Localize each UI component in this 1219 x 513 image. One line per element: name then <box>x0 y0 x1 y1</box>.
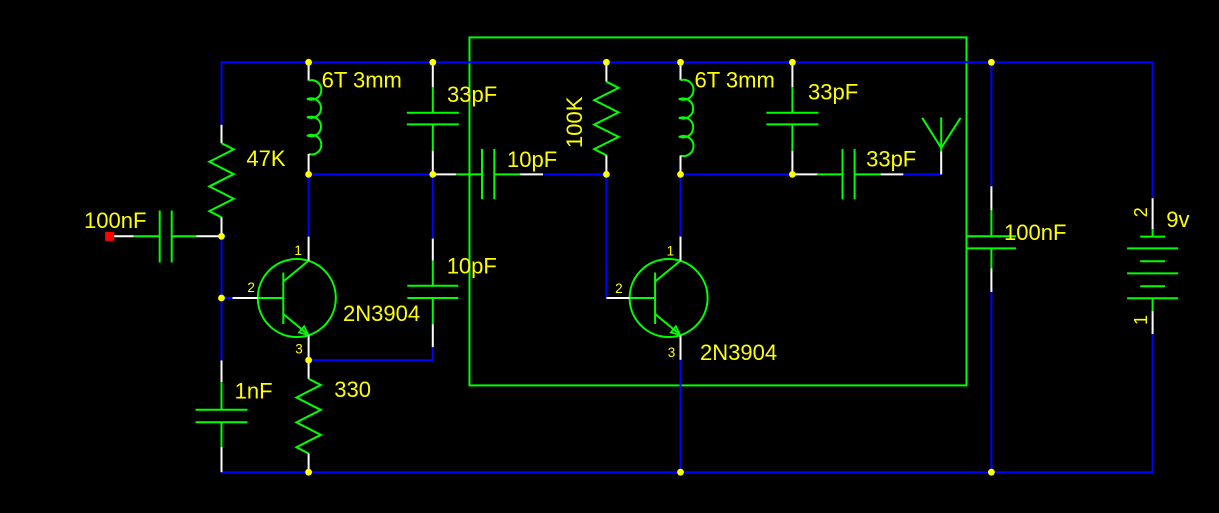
wire C5 to antenna <box>903 173 941 175</box>
svg-text:10pF: 10pF <box>447 253 497 278</box>
junction Q1 emitter node <box>305 357 312 364</box>
wire C3 to R2 node <box>543 173 606 175</box>
junction ground rail / Q2 emitter <box>677 469 684 476</box>
wire C2 column below tank rail to C8 <box>432 174 434 238</box>
battery BT1 9v <box>1127 198 1178 334</box>
svg-text:10pF: 10pF <box>507 147 557 172</box>
junction top rail / C2 <box>429 59 436 66</box>
capacitor C2 33pF tank 1 <box>407 62 459 174</box>
capacitor C1 100nF input coupling <box>114 211 222 263</box>
wire tank1 bottom rail <box>309 173 433 175</box>
junction ground rail / C6 column <box>988 469 995 476</box>
svg-text:6T 3mm: 6T 3mm <box>322 68 402 93</box>
wire left column top (rail to R1) <box>221 61 223 125</box>
wire L2 node to C4 node <box>681 173 793 175</box>
junction tank1 rail / L1 <box>305 171 312 178</box>
unconnected pin marker (red box) at C1 input <box>105 232 114 241</box>
antenna ANT1 <box>922 117 960 174</box>
svg-text:33pF: 33pF <box>808 80 858 105</box>
svg-text:1: 1 <box>667 243 675 258</box>
wire Q2 base corner <box>605 297 608 299</box>
green selection box around RF oscillator stage <box>470 37 967 385</box>
wire C6 down to ground rail <box>990 292 992 472</box>
capacitor C3 10pF interstage coupling <box>433 149 543 199</box>
junction C4 / C5 <box>789 171 796 178</box>
svg-text:1nF: 1nF <box>235 379 273 404</box>
junction R2 / Q2 base net <box>603 171 610 178</box>
svg-text:100nF: 100nF <box>84 208 146 233</box>
resistor R1 47K <box>209 125 233 237</box>
junction top rail / C6 column <box>988 59 995 66</box>
svg-text:2: 2 <box>1131 207 1151 217</box>
svg-text:3: 3 <box>668 345 676 360</box>
junction top rail / C4 <box>789 59 796 66</box>
svg-text:9v: 9v <box>1166 207 1189 232</box>
svg-text:2N3904: 2N3904 <box>343 301 420 326</box>
resistor R3 330 <box>296 360 320 472</box>
svg-text:2N3904: 2N3904 <box>700 340 777 365</box>
wire R2 node down to Q2 base <box>605 174 607 298</box>
transistor Q1 2N3904 <box>233 237 336 361</box>
svg-text:33pF: 33pF <box>447 82 497 107</box>
svg-text:47K: 47K <box>246 146 285 171</box>
svg-text:1: 1 <box>1131 315 1151 325</box>
wire battery negative to ground rail <box>1152 334 1154 473</box>
svg-text:3: 3 <box>295 341 303 356</box>
capacitor C6 100nF supply decoupling <box>967 186 1016 292</box>
wire Q1 emitter node to C8 <box>309 359 433 361</box>
capacitor C8 10pF feedback <box>407 239 458 348</box>
wire right column rail to C6 <box>990 62 992 186</box>
junction node A (C1/R1/base net) <box>218 233 225 240</box>
capacitor C7 1nF <box>196 360 248 472</box>
junction top rail / R2 <box>603 59 610 66</box>
wire top rail drop to battery <box>1152 61 1154 198</box>
wire Q2 emitter down to ground rail <box>680 360 682 472</box>
capacitor C5 33pF antenna coupling <box>792 149 903 199</box>
wire top supply rail <box>222 61 1153 63</box>
wire tank1 to Q1 collector <box>308 174 310 236</box>
svg-text:1: 1 <box>294 243 302 258</box>
wire base node down to C7 1nF <box>221 298 223 360</box>
wire Q1 base stub <box>222 297 233 299</box>
junction top rail / L1 <box>305 59 312 66</box>
svg-text:2: 2 <box>247 280 255 295</box>
transistor Q2 2N3904 <box>606 237 707 360</box>
junction tank1 rail / C2 <box>429 171 436 178</box>
capacitor C4 33pF tank 2 <box>766 62 818 174</box>
wire node A to base node <box>221 236 223 298</box>
junction L2 / Q2 collector net <box>677 171 684 178</box>
junction top rail / L2 <box>677 59 684 66</box>
wire bottom ground rail <box>222 471 1153 473</box>
svg-text:330: 330 <box>334 377 371 402</box>
junction Q1 base node <box>218 295 225 302</box>
svg-text:100nF: 100nF <box>1004 220 1066 245</box>
wire L2 node down to Q2 collector <box>680 174 682 236</box>
svg-text:6T 3mm: 6T 3mm <box>695 68 775 93</box>
wire C8 bottom corner <box>432 347 434 362</box>
svg-text:100K: 100K <box>562 96 587 148</box>
svg-text:2: 2 <box>615 281 623 296</box>
junction ground rail / R3 <box>305 469 312 476</box>
resistor R2 100K <box>594 62 618 174</box>
inductor L1 6T 3mm <box>307 62 321 174</box>
svg-text:33pF: 33pF <box>866 147 916 172</box>
inductor L2 6T 3mm <box>679 62 694 174</box>
